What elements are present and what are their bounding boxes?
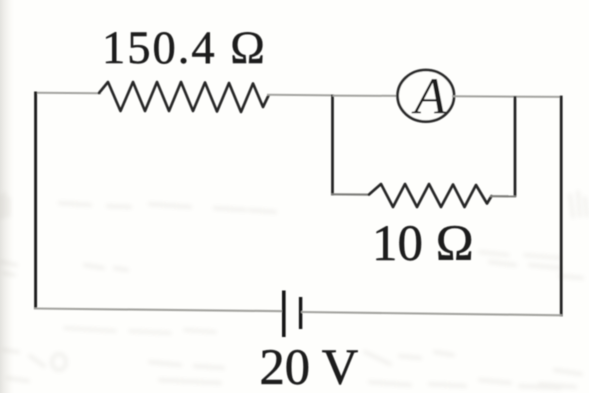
svg-text:A: A	[411, 68, 446, 125]
wire: lower branch left stub	[332, 193, 371, 196]
wire: left outer vertical	[34, 92, 37, 310]
resistor R1 150.4 ohm zigzag	[99, 82, 269, 112]
battery B1 right plate	[299, 297, 302, 329]
wire: bottom right segment	[301, 312, 562, 315]
wire: lower branch right stub	[490, 195, 516, 197]
wire: bottom left segment	[35, 309, 285, 312]
wire: top-left horizontal segment	[34, 92, 101, 94]
resistor R2 10 ohm zigzag	[369, 184, 492, 207]
wire: parallel branch left vertical	[331, 95, 334, 196]
wire: top middle segment	[267, 94, 334, 97]
wire: top segment from ammeter to right corner	[452, 95, 562, 98]
svg-text:10 Ω: 10 Ω	[372, 216, 474, 272]
battery B1 left plate	[282, 291, 286, 338]
ammeter U1 circle	[398, 70, 454, 122]
wire: parallel branch right vertical	[514, 96, 517, 197]
svg-text:150.4 Ω: 150.4 Ω	[102, 23, 267, 74]
svg-text:20 V: 20 V	[260, 339, 359, 393]
wire: right outer vertical	[560, 96, 563, 317]
wire: top segment to ammeter	[333, 95, 400, 97]
